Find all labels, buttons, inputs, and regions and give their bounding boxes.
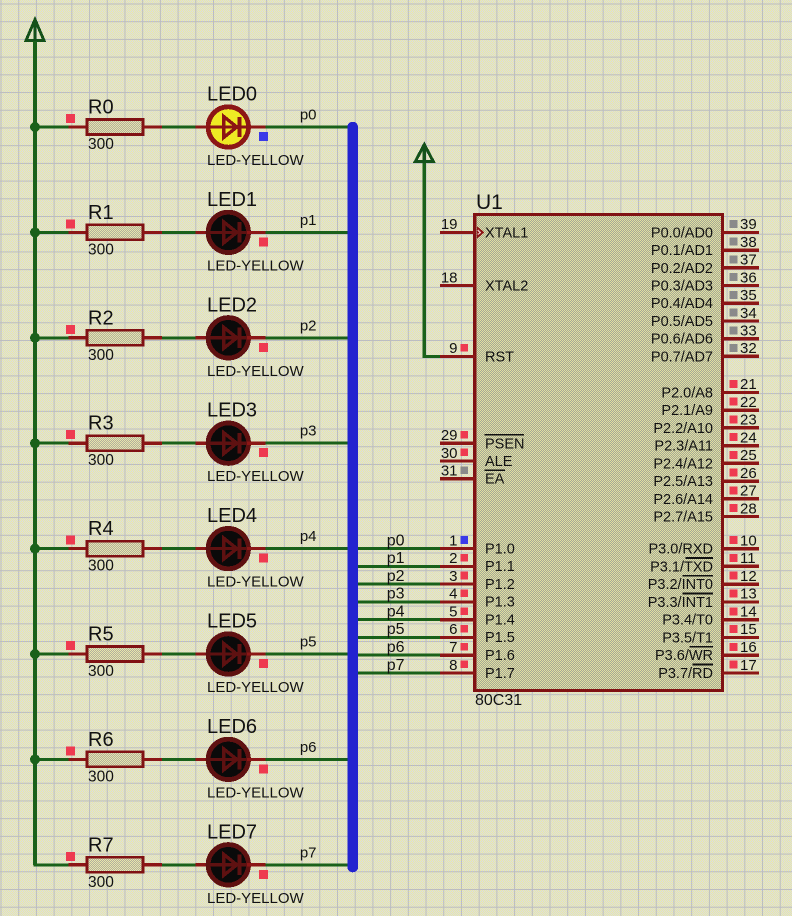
svg-text:24: 24 <box>740 429 757 446</box>
junction (rail / row 3) <box>30 438 40 448</box>
wire (bus to pin 1, net p0) <box>358 547 440 550</box>
resistor R5 <box>87 647 143 662</box>
pin 15 (P3.5 T1) <box>662 621 759 646</box>
net label p5 <box>300 634 317 651</box>
svg-text:30: 30 <box>441 445 458 462</box>
wire (R3 left lead) <box>69 442 89 445</box>
wire (R1 right lead) <box>143 231 162 234</box>
svg-text:7: 7 <box>449 639 457 656</box>
pin 25 (P2.4 A12) <box>653 447 758 472</box>
pin indicator (R5.1) <box>66 641 75 650</box>
svg-text:LED5: LED5 <box>207 611 257 633</box>
svg-text:P3.0/RXD: P3.0/RXD <box>649 542 713 558</box>
resistor R3 <box>87 436 143 451</box>
svg-text:2: 2 <box>449 550 457 567</box>
value LED-YELLOW <box>207 257 305 274</box>
wire (rail to R6) <box>34 758 69 761</box>
svg-text:25: 25 <box>740 447 757 464</box>
svg-text:80C31: 80C31 <box>475 692 522 709</box>
wire (R1 to LED1) <box>162 231 196 234</box>
wire (power to RST, vertical) <box>423 163 426 356</box>
svg-text:LED-YELLOW: LED-YELLOW <box>207 679 305 696</box>
pin 11 (P3.1 TXD) <box>650 550 759 575</box>
value 80C31 <box>475 692 522 709</box>
value 300 <box>88 874 114 891</box>
pin 36 (P0.3 AD3) <box>651 269 759 294</box>
pin indicator (LED0.K) <box>259 132 268 141</box>
value 300 <box>88 452 114 469</box>
svg-text:p7: p7 <box>300 844 317 861</box>
svg-text:9: 9 <box>449 340 457 357</box>
svg-text:p5: p5 <box>300 634 317 651</box>
wire (LED2 cathode lead) <box>247 336 265 339</box>
svg-text:p2: p2 <box>300 317 317 334</box>
wire (LED5 anode lead) <box>196 652 211 655</box>
net label p0 <box>387 532 405 549</box>
pin 4 (P1.3) <box>449 586 515 611</box>
svg-text:3: 3 <box>449 568 457 585</box>
pin 9 (RST) <box>440 340 514 365</box>
svg-text:14: 14 <box>740 604 757 621</box>
pin indicator (LED7.K) <box>259 870 268 879</box>
pin indicator (R3.1) <box>66 430 75 439</box>
net label p4 <box>300 528 317 545</box>
LED LED7 <box>207 845 250 885</box>
pin 6 (P1.5) <box>449 621 515 646</box>
wire (R6 left lead) <box>69 758 89 761</box>
pin 14 (P3.4 T0) <box>662 604 759 629</box>
svg-text:300: 300 <box>88 452 114 469</box>
svg-text:31: 31 <box>441 463 458 480</box>
pin 34 (P0.5 AD5) <box>651 305 759 330</box>
wire (LED3 anode lead) <box>196 442 211 445</box>
wire (R7 left lead) <box>69 863 89 866</box>
wire (bus to pin 8, net p7) <box>358 671 440 674</box>
label LED2 <box>207 294 257 316</box>
net label p1 <box>300 212 317 229</box>
value LED-YELLOW <box>207 574 305 591</box>
label R3 <box>88 413 114 435</box>
label U1 <box>476 191 503 214</box>
svg-text:LED-YELLOW: LED-YELLOW <box>207 363 305 380</box>
svg-text:P0.0/AD0: P0.0/AD0 <box>651 225 713 241</box>
svg-text:P2.7/A15: P2.7/A15 <box>653 510 713 526</box>
wire (rail to R4) <box>34 547 69 550</box>
label R5 <box>88 624 114 646</box>
LED LED1 <box>207 212 250 252</box>
wire (rail to R7) <box>34 863 69 866</box>
svg-text:P3.7/RD: P3.7/RD <box>658 666 713 682</box>
value 300 <box>88 241 114 258</box>
pin 31 (EA) <box>440 463 505 488</box>
svg-text:LED-YELLOW: LED-YELLOW <box>207 468 305 485</box>
wire (R4 right lead) <box>143 547 162 550</box>
svg-text:23: 23 <box>740 412 757 429</box>
label LED7 <box>207 821 257 843</box>
pin 22 (P2.1 A9) <box>661 394 758 419</box>
wire (bus to pin 4, net p3) <box>358 600 440 603</box>
pin 39 (P0.0 AD0) <box>651 216 759 241</box>
LED LED0 <box>207 107 250 147</box>
svg-text:P0.2/AD2: P0.2/AD2 <box>651 261 713 277</box>
wire (LED0 anode lead) <box>196 125 211 128</box>
wire (LED6 to bus) <box>265 758 348 761</box>
net label p2 <box>387 568 405 585</box>
svg-text:P2.2/A10: P2.2/A10 <box>653 421 713 437</box>
junction (rail / row 6) <box>30 754 40 764</box>
pin 3 (P1.2) <box>449 568 515 593</box>
pin indicator (R0.1) <box>66 114 75 123</box>
svg-text:P3.2/INT0: P3.2/INT0 <box>648 577 713 593</box>
pin 18 (XTAL2) <box>440 269 528 294</box>
svg-text:P2.6/A14: P2.6/A14 <box>653 492 713 508</box>
svg-text:P0.6/AD6: P0.6/AD6 <box>651 332 713 348</box>
resistor R2 <box>87 330 143 345</box>
svg-text:15: 15 <box>740 621 757 638</box>
svg-text:LED7: LED7 <box>207 821 257 843</box>
junction (rail / row 1) <box>30 227 40 237</box>
wire (bus to pin 3, net p2) <box>358 583 440 586</box>
svg-text:34: 34 <box>740 305 757 322</box>
svg-text:p6: p6 <box>300 739 317 756</box>
wire (rail to R1) <box>34 231 69 234</box>
svg-text:LED3: LED3 <box>207 400 257 422</box>
pin 21 (P2.0 A8) <box>661 376 758 401</box>
wire (pin 8 stub) <box>440 671 475 674</box>
label LED3 <box>207 400 257 422</box>
net label p5 <box>387 621 405 638</box>
wire (bus to pin 7, net p6) <box>358 654 440 657</box>
svg-text:4: 4 <box>449 586 457 603</box>
net label p6 <box>300 739 317 756</box>
pin 10 (P3.0 RXD) <box>649 532 759 557</box>
svg-text:XTAL2: XTAL2 <box>485 279 528 295</box>
svg-text:300: 300 <box>88 663 114 680</box>
pin 7 (P1.6) <box>449 639 515 664</box>
svg-text:R5: R5 <box>88 624 114 646</box>
LED LED6 <box>207 739 250 779</box>
svg-text:P0.7/AD7: P0.7/AD7 <box>651 349 713 365</box>
svg-text:P0.3/AD3: P0.3/AD3 <box>651 279 713 295</box>
label LED1 <box>207 189 257 211</box>
svg-text:P1.1: P1.1 <box>485 559 515 575</box>
svg-text:LED0: LED0 <box>207 84 257 106</box>
svg-text:P2.3/A11: P2.3/A11 <box>654 439 713 455</box>
wire (R5 to LED5) <box>162 653 196 656</box>
wire (LED2 anode lead) <box>196 336 211 339</box>
svg-text:p7: p7 <box>387 657 405 674</box>
svg-text:P0.1/AD1: P0.1/AD1 <box>651 243 713 259</box>
svg-text:300: 300 <box>88 136 114 153</box>
svg-text:P3.4/T0: P3.4/T0 <box>662 613 713 629</box>
wire (R4 left lead) <box>69 547 89 550</box>
wire (R7 right lead) <box>143 863 162 866</box>
svg-text:8: 8 <box>449 657 457 674</box>
svg-text:R3: R3 <box>88 413 114 435</box>
pin indicator (R1.1) <box>66 219 75 228</box>
svg-text:R0: R0 <box>88 97 114 119</box>
wire (LED0 cathode lead) <box>247 125 265 128</box>
label R7 <box>88 834 114 856</box>
LED LED3 <box>207 423 250 463</box>
net label p2 <box>300 317 317 334</box>
pin indicator (R7.1) <box>66 852 75 861</box>
svg-text:39: 39 <box>740 216 757 233</box>
svg-text:p0: p0 <box>387 532 405 549</box>
label R6 <box>88 729 114 751</box>
value LED-YELLOW <box>207 152 305 169</box>
svg-text:LED1: LED1 <box>207 189 257 211</box>
pin 32 (P0.7 AD7) <box>651 340 759 365</box>
wire (LED4 cathode lead) <box>247 547 265 550</box>
wire (left vertical rail) <box>33 41 37 865</box>
svg-text:300: 300 <box>88 768 114 785</box>
svg-text:R2: R2 <box>88 307 114 329</box>
svg-text:300: 300 <box>88 874 114 891</box>
wire (bus to pin 6, net p5) <box>358 636 440 639</box>
svg-text:LED-YELLOW: LED-YELLOW <box>207 890 305 907</box>
pin indicator (R4.1) <box>66 536 75 545</box>
svg-text:P3.6/WR: P3.6/WR <box>655 648 713 664</box>
wire (LED6 cathode lead) <box>247 758 265 761</box>
wire (LED1 cathode lead) <box>247 231 265 234</box>
svg-text:PSEN: PSEN <box>485 436 525 452</box>
svg-text:P1.4: P1.4 <box>485 613 515 629</box>
svg-text:P3.1/TXD: P3.1/TXD <box>650 559 713 575</box>
svg-text:12: 12 <box>740 568 757 585</box>
svg-text:5: 5 <box>449 604 457 621</box>
svg-text:P2.5/A13: P2.5/A13 <box>653 474 713 490</box>
svg-text:p4: p4 <box>300 528 317 545</box>
value LED-YELLOW <box>207 468 305 485</box>
svg-text:P1.7: P1.7 <box>485 666 515 682</box>
svg-text:300: 300 <box>88 241 114 258</box>
pin 2 (P1.1) <box>449 550 515 575</box>
svg-text:p5: p5 <box>387 621 405 638</box>
svg-text:P1.6: P1.6 <box>485 648 515 664</box>
svg-text:300: 300 <box>88 558 114 575</box>
wire (LED3 to bus) <box>265 442 348 445</box>
svg-text:p6: p6 <box>387 639 405 656</box>
power symbol (left rail) <box>26 20 44 42</box>
svg-text:EA: EA <box>485 472 505 488</box>
svg-text:p4: p4 <box>387 604 405 621</box>
wire (LED1 to bus) <box>265 231 348 234</box>
svg-text:p3: p3 <box>300 423 317 440</box>
wire (R5 left lead) <box>69 652 89 655</box>
value 300 <box>88 136 114 153</box>
svg-text:P2.1/A9: P2.1/A9 <box>661 403 713 419</box>
label R0 <box>88 97 114 119</box>
pin indicator (LED6.K) <box>259 764 268 773</box>
resistor R4 <box>87 541 143 556</box>
pin 16 (P3.6 WR) <box>655 639 759 664</box>
svg-text:ALE: ALE <box>485 454 513 470</box>
label LED4 <box>207 505 257 527</box>
svg-text:18: 18 <box>441 269 458 286</box>
svg-text:P2.0/A8: P2.0/A8 <box>661 385 713 401</box>
svg-text:32: 32 <box>740 340 757 357</box>
svg-text:36: 36 <box>740 269 757 286</box>
svg-text:LED-YELLOW: LED-YELLOW <box>207 257 305 274</box>
svg-text:P1.5: P1.5 <box>485 630 515 646</box>
pin 13 (P3.3 INT1) <box>648 586 759 611</box>
svg-text:26: 26 <box>740 465 757 482</box>
wire (R2 to LED2) <box>162 336 196 339</box>
svg-text:11: 11 <box>740 550 756 567</box>
svg-text:17: 17 <box>740 657 757 674</box>
LED LED2 <box>207 318 250 358</box>
label R4 <box>88 518 114 540</box>
wire (LED2 to bus) <box>265 336 348 339</box>
svg-text:R1: R1 <box>88 202 114 224</box>
pin 27 (P2.6 A14) <box>653 483 758 508</box>
pin 30 (ALE) <box>440 445 513 470</box>
value 300 <box>88 768 114 785</box>
svg-text:22: 22 <box>740 394 757 411</box>
pin 33 (P0.6 AD6) <box>651 323 759 348</box>
svg-text:29: 29 <box>441 427 458 444</box>
wire (power to RST, horizontal) <box>423 355 441 358</box>
svg-text:p1: p1 <box>300 212 317 229</box>
wire (pin 2 stub) <box>440 565 475 568</box>
label R2 <box>88 307 114 329</box>
pin 28 (P2.7 A15) <box>653 500 758 525</box>
svg-text:16: 16 <box>740 639 757 656</box>
svg-text:p0: p0 <box>300 107 317 124</box>
value 300 <box>88 663 114 680</box>
wire (LED5 to bus) <box>265 653 348 656</box>
wire (LED7 to bus) <box>265 863 348 866</box>
wire (LED7 cathode lead) <box>247 863 265 866</box>
wire (R6 right lead) <box>143 758 162 761</box>
junction (rail / row 0) <box>30 122 40 132</box>
svg-text:LED-YELLOW: LED-YELLOW <box>207 574 305 591</box>
pin indicator (R2.1) <box>66 325 75 334</box>
pin 5 (P1.4) <box>449 604 515 629</box>
LED LED4 <box>207 528 250 568</box>
svg-text:XTAL1: XTAL1 <box>485 225 528 241</box>
pin 26 (P2.5 A13) <box>653 465 758 490</box>
resistor R0 <box>87 120 143 135</box>
wire (R5 right lead) <box>143 652 162 655</box>
wire (LED0 to bus) <box>265 126 348 129</box>
IC U1 (80C31) body <box>475 215 723 691</box>
wire (rail to R5) <box>34 653 69 656</box>
value 300 <box>88 347 114 364</box>
svg-text:1: 1 <box>449 532 457 549</box>
svg-text:37: 37 <box>740 252 757 269</box>
wire (R1 left lead) <box>69 231 89 234</box>
svg-text:38: 38 <box>740 234 757 251</box>
svg-text:LED-YELLOW: LED-YELLOW <box>207 784 305 801</box>
pin 23 (P2.2 A10) <box>653 412 758 437</box>
net label p6 <box>387 639 405 656</box>
svg-text:33: 33 <box>740 323 757 340</box>
value LED-YELLOW <box>207 679 305 696</box>
pin indicator (LED5.K) <box>259 659 268 668</box>
pin indicator (LED4.K) <box>259 554 268 563</box>
svg-text:35: 35 <box>740 287 757 304</box>
value LED-YELLOW <box>207 784 305 801</box>
wire (pin 4 stub) <box>440 600 475 603</box>
svg-text:R4: R4 <box>88 518 114 540</box>
svg-text:U1: U1 <box>476 191 503 214</box>
svg-text:27: 27 <box>740 483 757 500</box>
pin 24 (P2.3 A11) <box>654 429 758 454</box>
net label p4 <box>387 604 405 621</box>
wire (rail to R2) <box>34 336 69 339</box>
pin 35 (P0.4 AD4) <box>651 287 759 312</box>
wire (R3 to LED3) <box>162 442 196 445</box>
net label p7 <box>300 844 317 861</box>
wire (LED5 cathode lead) <box>247 652 265 655</box>
svg-text:P3.5/T1: P3.5/T1 <box>662 631 713 647</box>
pin 37 (P0.2 AD2) <box>651 252 759 277</box>
wire (LED1 anode lead) <box>196 231 211 234</box>
pin indicator (LED3.K) <box>259 448 268 457</box>
resistor R6 <box>87 752 143 767</box>
svg-text:P0.4/AD4: P0.4/AD4 <box>651 296 713 312</box>
svg-text:13: 13 <box>740 586 757 603</box>
svg-text:21: 21 <box>740 376 757 393</box>
svg-text:RST: RST <box>485 349 514 365</box>
pin indicator (LED1.K) <box>259 237 268 246</box>
label LED5 <box>207 611 257 633</box>
label LED6 <box>207 716 257 738</box>
pin 1 (P1.0) <box>449 532 515 557</box>
svg-text:P1.3: P1.3 <box>485 595 515 611</box>
wire (LED6 anode lead) <box>196 758 211 761</box>
value LED-YELLOW <box>207 890 305 907</box>
wire (R0 right lead) <box>143 125 162 128</box>
svg-text:300: 300 <box>88 347 114 364</box>
svg-text:p1: p1 <box>387 550 405 567</box>
svg-text:LED2: LED2 <box>207 294 257 316</box>
pin 12 (P3.2 INT0) <box>648 568 759 593</box>
pin indicator (LED2.K) <box>259 343 268 352</box>
power symbol (RST) <box>415 145 433 164</box>
junction (rail / row 5) <box>30 649 40 659</box>
svg-text:P2.4/A12: P2.4/A12 <box>653 456 713 472</box>
wire (pin 6 stub) <box>440 636 475 639</box>
svg-text:P3.3/INT1: P3.3/INT1 <box>648 595 713 611</box>
net label p7 <box>387 657 405 674</box>
net label p3 <box>387 586 405 603</box>
svg-text:R6: R6 <box>88 729 114 751</box>
wire (R6 to LED6) <box>162 758 196 761</box>
wire (LED3 cathode lead) <box>247 442 265 445</box>
net label p1 <box>387 550 405 567</box>
junction (rail / row 2) <box>30 333 40 343</box>
svg-text:LED-YELLOW: LED-YELLOW <box>207 152 305 169</box>
wire (LED4 to bus) <box>265 547 348 550</box>
svg-text:R7: R7 <box>88 834 114 856</box>
pin 8 (P1.7) <box>449 657 515 682</box>
pin 19 (XTAL1) <box>440 216 528 241</box>
svg-text:10: 10 <box>740 532 757 549</box>
svg-text:P1.2: P1.2 <box>485 577 515 593</box>
LED LED5 <box>207 634 250 674</box>
svg-text:P1.0: P1.0 <box>485 541 515 557</box>
wire (pin 5 stub) <box>440 618 475 621</box>
svg-text:19: 19 <box>441 216 458 233</box>
label LED0 <box>207 84 257 106</box>
net label p0 <box>300 107 317 124</box>
value 300 <box>88 558 114 575</box>
wire (rail to R0) <box>34 126 69 129</box>
wire (R2 right lead) <box>143 336 162 339</box>
